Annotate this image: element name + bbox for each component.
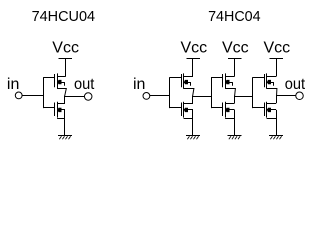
svg-text:Vcc: Vcc <box>180 40 207 57</box>
svg-text:Vcc: Vcc <box>52 40 79 57</box>
svg-text:in: in <box>7 76 19 93</box>
svg-text:Vcc: Vcc <box>222 40 249 57</box>
svg-text:out: out <box>74 76 95 93</box>
svg-text:out: out <box>285 76 306 93</box>
svg-text:Vcc: Vcc <box>263 40 290 57</box>
svg-text:in: in <box>133 76 145 93</box>
svg-text:74HC04: 74HC04 <box>208 9 261 25</box>
svg-text:74HCU04: 74HCU04 <box>32 9 96 25</box>
